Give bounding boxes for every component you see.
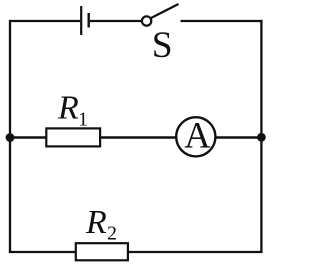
wire middle left: node to R1 [10, 136, 47, 139]
wire bottom-left segment [9, 251, 77, 253]
svg-text:R: R [85, 204, 107, 241]
wire battery to switch [90, 20, 142, 22]
wire right vertical [260, 20, 262, 253]
svg-text:1: 1 [78, 108, 88, 130]
wire R2 to bottom-right corner [127, 251, 263, 253]
switch S pivot circle [142, 16, 151, 25]
node right junction [257, 133, 266, 142]
svg-text:R: R [57, 89, 79, 126]
battery cell long plate [80, 6, 82, 35]
ammeter A [176, 117, 215, 156]
wire switch contact to top-right corner [181, 20, 263, 22]
switch S lever [151, 4, 179, 18]
svg-text:A: A [184, 114, 211, 155]
wire ammeter to right node [215, 136, 261, 139]
wire top-left segment [10, 20, 80, 22]
battery cell short plate [87, 13, 89, 28]
node left junction [6, 133, 15, 142]
wire R1 to ammeter [100, 136, 177, 139]
svg-text:S: S [152, 25, 173, 66]
resistor R1 [46, 128, 100, 146]
resistor R2 [76, 243, 128, 260]
svg-text:2: 2 [107, 222, 117, 244]
wire left vertical [9, 20, 11, 253]
